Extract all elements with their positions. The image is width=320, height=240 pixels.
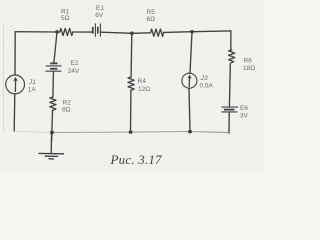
wire R4 to bottom wire [130, 90, 132, 132]
wire node B to R4 [130, 33, 133, 77]
svg-text:0.5A: 0.5A [200, 83, 214, 90]
battery E6 [221, 107, 238, 112]
svg-text:E2: E2 [71, 60, 79, 67]
resistor R1 [60, 28, 73, 35]
scan border artifact (decorative) [3, 24, 5, 133]
wire left branch upper [14, 32, 16, 75]
wire E6 to bottom-right corner [228, 112, 230, 133]
wire R2 to bottom node [51, 110, 54, 141]
wire R5 to node C [164, 31, 192, 34]
svg-text:6Ω: 6Ω [147, 16, 156, 23]
svg-text:R5: R5 [147, 9, 156, 16]
wire node B to R5 [132, 32, 151, 35]
svg-text:12Ω: 12Ω [138, 86, 150, 93]
wire top-left corner to R1 [15, 31, 60, 33]
svg-text:8Ω: 8Ω [62, 107, 71, 114]
svg-text:E6: E6 [240, 105, 248, 112]
svg-text:5Ω: 5Ω [61, 15, 70, 22]
node C [190, 30, 194, 34]
wire bottom far-left (faint) [14, 131, 52, 132]
resistor R6 [229, 49, 235, 63]
node F (bottom of J3 branch) [188, 130, 192, 134]
svg-text:R4: R4 [138, 78, 147, 85]
wire bottom right [190, 131, 229, 134]
node B [130, 32, 134, 36]
svg-text:J1: J1 [28, 79, 36, 86]
svg-text:R6: R6 [244, 58, 253, 65]
wire node A to E2 [54, 32, 57, 63]
wire node C to top-right corner [192, 30, 231, 33]
wire R6 to E6 [228, 64, 231, 107]
wire R1 to E1 [73, 31, 93, 33]
svg-text:24V: 24V [68, 68, 80, 75]
battery E1 [93, 23, 101, 36]
node E (bottom of R4 branch) [129, 130, 133, 134]
wire E1 to node B [101, 32, 132, 33]
svg-text:Рис. 3.17: Рис. 3.17 [110, 152, 163, 167]
svg-text:3V: 3V [240, 113, 249, 120]
wire J1 to bottom-left [13, 94, 16, 131]
wire ground stem [50, 132, 52, 153]
current source J3 [182, 73, 197, 88]
node D (bottom of R2 branch) [50, 131, 54, 135]
svg-text:18Ω: 18Ω [243, 65, 255, 72]
svg-text:R2: R2 [63, 100, 72, 107]
wire bottom middle-right [131, 131, 190, 134]
node A [55, 30, 59, 34]
battery E2 [45, 63, 61, 71]
wire E2 to R2 [52, 72, 55, 97]
svg-text:E1: E1 [96, 5, 104, 12]
wire node C to J3 [190, 32, 192, 74]
resistor R4 [128, 77, 134, 90]
current source J1 [6, 75, 25, 94]
svg-text:6V: 6V [95, 12, 104, 19]
wire bottom left-middle [52, 131, 131, 133]
wire J3 to bottom wire [189, 88, 190, 131]
svg-text:1A: 1A [28, 87, 37, 94]
ground [39, 153, 64, 159]
wire right branch upper [230, 31, 232, 49]
svg-text:J3: J3 [200, 75, 208, 82]
resistor R2 [50, 97, 56, 110]
resistor R5 [151, 29, 164, 36]
